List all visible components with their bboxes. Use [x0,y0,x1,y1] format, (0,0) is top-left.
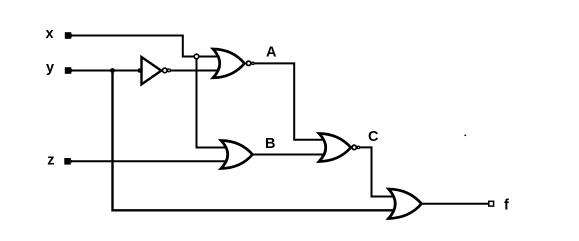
svg-text:z: z [47,153,54,169]
svg-text:y: y [46,60,54,76]
svg-text:B: B [265,136,275,152]
svg-text:C: C [368,129,379,145]
svg-text:f: f [504,197,509,213]
svg-text:x: x [46,26,54,42]
svg-text:A: A [266,45,277,61]
